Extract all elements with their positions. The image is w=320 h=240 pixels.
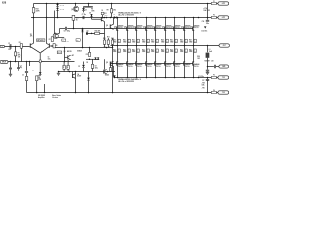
connector speaker output [219,44,229,47]
transistor Q23 2SA1943 output PNP [154,61,155,65]
node mid joints [64,47,66,49]
svg-text:C2: C2 [48,57,50,59]
svg-text:-70V: -70V [202,87,205,89]
diode D1 tail [39,72,42,74]
svg-text:0R2: 0R2 [137,51,140,53]
label box input pair [37,39,45,42]
transistor Q9 PNP driver [109,61,112,65]
node input bias junction [15,46,17,48]
svg-text:1N4148: 1N4148 [60,8,65,11]
svg-text:2u2: 2u2 [8,49,11,51]
resistor R32 0R22 emitter lower [155,46,157,62]
svg-text:0R2: 0R2 [194,41,197,43]
svg-text:F4: F4 [213,89,215,92]
svg-text:GND: GND [222,66,225,68]
wire +V top sub-rail [34,3,212,5]
svg-text:0R2: 0R2 [137,41,140,43]
transistor Q6 Vbe multiplier [65,56,68,58]
svg-text:0R2: 0R2 [175,51,178,53]
svg-text:Q15: Q15 [162,27,165,29]
diode D2 string [57,3,59,5]
svg-text:R: R [63,67,64,69]
line y59 bias [86,58,99,60]
svg-text:BD139: BD139 [67,51,72,53]
diode D10 rail end lower [113,75,115,77]
svg-text:0R2: 0R2 [175,41,178,43]
node output junction [207,45,209,47]
svg-text:0R22: 0R22 [180,41,183,43]
connector +V driver [218,16,229,19]
svg-text:628: 628 [2,1,7,4]
transistor Q8 NPN driver [109,24,112,28]
svg-text:-70V: -70V [222,77,225,79]
svg-text:100R: 100R [91,10,94,12]
svg-text:Q8: Q8 [106,25,108,27]
svg-text:D7: D7 [78,66,80,68]
svg-text:Q6: Q6 [63,51,65,53]
svg-text:R6: R6 [56,45,58,47]
diode D12 under bus [81,30,83,32]
svg-text:68p: 68p [76,40,78,42]
capacitor C6 [86,32,88,35]
resistor R20 0R22 emitter [127,31,129,46]
ground mid [58,72,60,73]
capacitor C7 on rail [82,16,84,19]
svg-text:R30: R30 [132,49,135,51]
transistor Q27 2SA1943 output PNP [192,61,193,65]
transistor Q7 lower driver [102,70,105,74]
svg-text:Q9: Q9 [106,62,108,64]
transistor Q13 2SC5200 output NPN [146,17,148,19]
svg-text:INPUT: INPUT [2,62,6,64]
svg-text:Q18: Q18 [190,27,193,29]
wire bias chain to sub-rail [75,72,77,93]
wire ground bus [8,61,75,63]
svg-text:10R: 10R [197,58,200,60]
svg-text:SW 500W: SW 500W [38,95,46,97]
wire lower driver bus [59,71,116,73]
trimpot VR1 bias [72,15,75,20]
resistor R6 feedback [51,45,53,47]
wire NPN base bus [111,28,193,30]
wire output bus [111,45,220,47]
svg-text:22R: 22R [104,46,106,48]
svg-text:0R2: 0R2 [128,41,131,43]
resistor R8 thick film [88,3,90,5]
node bottom rail right joints [198,77,200,79]
resistor R10 horizontal [95,32,100,34]
svg-text:0R22: 0R22 [161,51,164,53]
inductor L1 with damping resistor [207,46,209,53]
svg-text:100u: 100u [48,58,51,60]
svg-text:F2: F2 [213,14,215,16]
ground input [9,73,12,75]
svg-text:R12: R12 [103,38,106,40]
resistor R35 0R22 emitter lower [184,46,186,62]
label blobs mid VAS [62,39,66,41]
capacitor C3 feedback shunt [26,62,28,71]
svg-text:R27: R27 [189,40,192,42]
svg-text:1K: 1K [101,10,103,12]
svg-text:0R22: 0R22 [132,41,135,43]
svg-text:0R2: 0R2 [128,51,131,53]
transistor Q17 2SC5200 output NPN [184,17,186,19]
wire +V driver rail [31,17,211,19]
transistor Q10 2SC5200 output NPN [117,17,119,19]
zener Z1 [204,26,206,28]
svg-text:0R22: 0R22 [113,51,116,53]
transistor Q3 current source [75,3,77,5]
node lower bus joints [58,71,60,73]
svg-text:Q12: Q12 [133,27,136,29]
svg-text:100p: 100p [67,30,71,32]
connector -V supply [218,91,229,94]
resistor R29 0R22 emitter lower [127,46,129,62]
diode D4 [82,8,85,10]
fuse F2 [211,16,216,18]
svg-text:0R2: 0R2 [166,41,169,43]
wire -V feed vertical [207,81,209,93]
svg-text:C5: C5 [64,30,66,32]
svg-text:1N4148: 1N4148 [77,50,82,53]
transistor Q21 2SA1943 output PNP [135,61,136,65]
svg-text:2SA1943: 2SA1943 [194,63,200,66]
svg-text:Bass Guitar: Bass Guitar [52,94,61,97]
transistor Q20 2SA1943 output PNP [126,61,127,65]
svg-text:R26: R26 [180,40,183,42]
node sub-rail joint [44,92,46,94]
capacitor C18 output [208,66,214,68]
svg-text:C8: C8 [86,62,88,64]
svg-text:R8: R8 [91,9,93,11]
svg-text:R34: R34 [170,48,173,51]
svg-text:C1: C1 [8,43,10,45]
resistor R19 0R22 emitter [117,31,119,46]
resistor R28 0R22 emitter lower [117,46,119,62]
svg-text:C16: C16 [202,21,205,23]
svg-text:R11: R11 [104,13,107,15]
svg-text:0R2: 0R2 [147,51,150,53]
svg-text:R24: R24 [161,39,164,42]
svg-text:C6: C6 [87,31,89,33]
capacitor C17 rail decoupling [207,78,209,80]
svg-text:F3: F3 [213,74,215,76]
svg-text:Q4: Q4 [77,73,79,76]
svg-text:R39: R39 [197,56,200,58]
resistor R4 tail [37,75,41,77]
resistor R34 0R22 emitter lower [174,46,176,62]
resistor R21 0R22 emitter [136,31,138,46]
transistor Q15 2SC5200 output NPN [165,17,167,19]
svg-text:R23: R23 [36,9,39,11]
svg-text:D4: D4 [85,8,87,11]
svg-text:+70V: +70V [222,3,225,5]
wire -V bottom sub-rail [27,92,212,94]
svg-text:BD140: BD140 [105,73,109,76]
line y33 link [86,32,105,34]
transistor Q22 2SA1943 output PNP [145,61,146,65]
transistor Q25 2SA1943 output PNP [173,61,174,65]
wire PNP base bus [111,63,193,65]
svg-text:C3: C3 [22,75,24,77]
svg-text:R31: R31 [142,49,145,51]
svg-text:100R: 100R [104,15,107,17]
svg-text:0R2: 0R2 [166,51,169,53]
transistor Q4a VAS upper [92,18,101,20]
svg-text:-70V: -70V [222,92,225,94]
svg-text:0R22: 0R22 [142,51,145,53]
diodes D8 D9 on bias line [94,57,96,59]
svg-text:R21: R21 [132,40,135,42]
svg-text:R4: R4 [38,76,40,79]
wire tail R3 [29,62,31,67]
connector J1 signal input [0,45,5,47]
transistor Q4 driver PNP [71,74,74,78]
svg-text:22R: 22R [41,50,43,52]
svg-text:R2: R2 [19,42,21,44]
svg-text:C3: C3 [32,70,34,72]
svg-text:0R2: 0R2 [185,51,188,53]
svg-text:R32: R32 [151,49,154,51]
svg-text:0R22: 0R22 [113,41,116,43]
svg-text:C9: C9 [95,66,97,68]
resistor R23 rail dropper [33,4,35,8]
svg-text:10uH: 10uH [209,51,212,53]
svg-text:R36: R36 [189,49,192,51]
svg-text:ALL Re = 0R22 5W: ALL Re = 0R22 5W [118,14,134,17]
node bus joins [73,28,75,30]
svg-text:1N4148: 1N4148 [60,4,65,7]
svg-text:0R22: 0R22 [161,41,164,43]
resistor R36 0R22 emitter lower [193,46,195,62]
svg-text:VR1: VR1 [76,18,79,20]
svg-text:OUT: OUT [223,45,226,47]
transistor Q19 2SA1943 output PNP [116,61,117,65]
bias column lower [112,48,114,93]
capacitor C19 zobel [207,67,209,70]
resistor R25 0R22 emitter [174,31,176,46]
current source Q tail [39,60,41,63]
capacitor C5 compensation [60,28,66,30]
svg-text:+70V: +70V [222,17,225,19]
connector +V supply [218,2,229,5]
svg-text:22K: 22K [18,54,22,56]
svg-text:BD139: BD139 [58,52,62,54]
svg-text:-70V: -70V [202,82,206,84]
svg-text:C4: C4 [20,64,22,67]
svg-text:22R: 22R [108,46,110,48]
svg-text:R10 47K: R10 47K [95,29,102,32]
svg-text:R17: R17 [86,54,89,56]
svg-text:10K: 10K [18,57,20,59]
wire Q1 collector [33,18,35,44]
svg-text:L1: L1 [209,49,211,51]
svg-text:0R2: 0R2 [156,51,159,53]
transistor Q1 [29,43,32,47]
svg-text:0R2: 0R2 [194,51,197,53]
wire +V feed vertical [207,4,209,18]
capacitor C1 input coupling [9,44,11,49]
wire common emitter tail [33,48,40,52]
svg-text:C17: C17 [202,80,205,82]
svg-text:0R22: 0R22 [123,41,126,43]
svg-text:C7 10n: C7 10n [82,14,86,16]
svg-text:ALL Re = 0R22 5W: ALL Re = 0R22 5W [118,80,134,83]
wire mid feedback line [54,47,113,49]
svg-text:Q11: Q11 [124,27,127,29]
svg-text:R35: R35 [180,49,183,51]
svg-text:C14 100n: C14 100n [201,30,207,33]
capacitor C9 electrolytic [92,59,94,64]
transistor Q16 2SC5200 output NPN [174,17,176,19]
svg-text:0R2: 0R2 [118,51,121,53]
node tail to rail [36,92,38,94]
svg-text:R25: R25 [170,40,173,42]
resistor R24 0R22 emitter [165,31,167,46]
svg-text:220R: 220R [36,11,41,13]
transistor Q5 VAS circle [53,33,58,38]
svg-text:R5: R5 [30,34,32,36]
svg-text:R9: R9 [107,10,109,12]
resistor R9 on bias column [111,3,113,5]
capacitor C4b [18,62,20,68]
svg-text:R33: R33 [161,49,164,51]
transistor Q24 2SA1943 output PNP [164,61,165,65]
svg-text:R: R [67,67,68,69]
diode D6 rail series [114,16,116,19]
capacitor C4 input ground [10,62,12,68]
svg-text:R7: R7 [49,39,51,41]
svg-text:Q17: Q17 [181,27,184,29]
svg-text:Q5: Q5 [54,33,56,35]
svg-text:R19: R19 [113,40,116,42]
capacitor C16 rail decoupling [207,18,209,20]
resistor R26 0R22 emitter [184,31,186,46]
svg-text:F1: F1 [213,1,215,3]
node zobel junction [207,66,209,68]
connector output ground [219,65,229,68]
svg-text:0R22: 0R22 [132,51,135,53]
resistor R15 R16 pair above lower bus [63,65,65,69]
resistor R22 0R22 emitter [146,31,148,46]
resistor R18 lower [109,68,111,72]
svg-text:0R22: 0R22 [170,51,173,53]
svg-text:1K: 1K [62,40,64,42]
svg-text:R13: R13 [107,36,110,38]
svg-text:0R22: 0R22 [189,51,192,53]
diode D3 string [56,8,59,10]
transistor Q11 2SC5200 output NPN [127,17,129,19]
transistor Q26 2SA1943 output PNP [183,61,184,65]
svg-text:C18: C18 [211,61,214,63]
svg-text:0R22: 0R22 [151,51,154,53]
svg-text:D6: D6 [113,14,115,16]
connector -V driver [218,76,229,79]
diode D7 [83,62,85,65]
svg-text:Q3: Q3 [71,9,73,11]
wire -V main rail [114,77,211,79]
connector J2 input ground [0,61,8,64]
node ground bus joints [10,61,12,63]
svg-text:C10: C10 [67,41,70,43]
wire input line [5,46,30,48]
svg-text:2K2: 2K2 [113,10,116,12]
svg-text:0R22: 0R22 [123,51,126,53]
transistor Q18 2SC5200 output NPN [193,17,195,19]
resistor R11 driver rail [101,12,104,15]
svg-text:CCS: CCS [42,61,45,63]
resistor R1 input bias [15,47,17,52]
svg-text:0R2: 0R2 [156,41,159,43]
ground zobel [206,71,209,73]
transistor Q2 [48,43,51,47]
svg-text:Q16: Q16 [171,27,174,29]
diode D5 to driver rail [91,14,93,19]
svg-text:0R22: 0R22 [189,41,192,43]
wire VAS collector drop [59,29,61,34]
transistor Q12 2SC5200 output NPN [136,17,138,19]
svg-text:0R2: 0R2 [147,41,150,43]
svg-text:R28: R28 [113,49,116,51]
diode D11 lower chain [88,72,90,78]
resistor R30 0R22 emitter lower [136,46,138,62]
svg-text:10K: 10K [38,79,42,81]
wire Q2 collector [46,4,48,44]
fuse F3 [211,76,216,78]
svg-text:100u: 100u [95,67,98,69]
svg-text:R20: R20 [123,40,126,42]
svg-text:4K7: 4K7 [72,54,75,57]
svg-text:D5: D5 [89,13,91,15]
svg-text:R29: R29 [123,49,126,51]
node top rail right joints [198,17,200,19]
wire VAS emitter column [104,22,106,40]
resistor R27 0R22 emitter [193,31,195,46]
fuse F1 [211,2,216,4]
svg-text:100n: 100n [206,23,209,25]
resistor R23 0R22 emitter [155,31,157,46]
svg-text:1K: 1K [76,19,79,21]
svg-text:R23: R23 [151,40,154,42]
svg-text:0R22: 0R22 [142,41,145,43]
svg-text:Q13: Q13 [143,27,146,29]
svg-text:IN: IN [2,46,3,48]
label box bias [57,51,61,54]
fuse F4 [211,91,216,93]
svg-text:R22: R22 [142,40,145,42]
svg-text:R1: R1 [18,53,20,55]
wire bias drop [64,48,66,62]
svg-text:Q10: Q10 [114,27,117,29]
svg-text:0R2: 0R2 [118,41,121,43]
resistor R33 0R22 emitter lower [165,46,167,62]
svg-text:0R22: 0R22 [151,41,154,43]
svg-text:0R22: 0R22 [180,51,183,53]
transistor Q14 2SC5200 output NPN [155,17,157,19]
resistor R2 series [20,44,22,49]
resistor R31 0R22 emitter lower [146,46,148,62]
svg-text:0R22: 0R22 [170,41,173,43]
svg-text:0R2: 0R2 [185,41,188,43]
resistor R12 R13 R14 vertical group [104,40,106,48]
resistor R7 VAS emitter [51,37,53,42]
